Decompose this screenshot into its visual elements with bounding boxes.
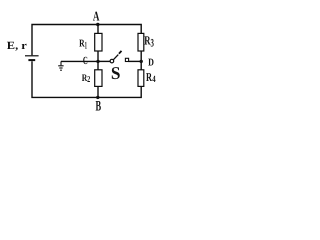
svg-text:R: R: [146, 70, 152, 84]
svg-text:1: 1: [85, 40, 87, 51]
wire R2 to B: [97, 86, 99, 97]
svg-text:4: 4: [152, 75, 156, 85]
wire D to R4: [140, 61, 142, 69]
resistor R3: [138, 33, 144, 51]
ground bar 3: [60, 69, 62, 71]
svg-text:A: A: [93, 9, 100, 24]
wire top (A row) + left upper (battery to top) + right upper (top to R3): [32, 25, 141, 56]
svg-text:E, r: E, r: [7, 40, 27, 52]
ground bar 1: [58, 65, 63, 67]
wire C to R2: [97, 61, 99, 69]
svg-text:B: B: [96, 99, 102, 114]
svg-text:2: 2: [87, 74, 90, 84]
wire middle branch A to R1: [97, 25, 99, 34]
switch S left terminal: [110, 59, 114, 63]
resistor R2: [95, 70, 102, 87]
wire C to switch: [98, 60, 110, 62]
battery E,r short plate: [28, 59, 35, 61]
switch S right terminal: [125, 58, 128, 61]
wire switch to node D: [129, 60, 142, 62]
node C junction dot: [96, 60, 99, 63]
wire R3 to D: [140, 51, 142, 61]
ground stem: [60, 61, 62, 65]
svg-text:3: 3: [151, 37, 155, 49]
node A junction dot: [96, 23, 99, 26]
svg-text:S: S: [111, 63, 121, 83]
svg-text:C: C: [83, 55, 88, 67]
wire left lower (battery to bottom) + bottom (B row) + right lower (bottom to R4): [32, 61, 141, 97]
switch S blade: [113, 55, 118, 60]
wire ground to node C: [61, 60, 98, 62]
ground bar 2: [59, 67, 62, 69]
node D junction dot: [140, 60, 143, 63]
resistor R4: [138, 70, 144, 87]
node B junction dot: [96, 96, 99, 99]
svg-text:D: D: [148, 58, 154, 69]
switch S handle tick: [119, 51, 122, 54]
resistor R1: [95, 33, 102, 51]
wire R1 to C: [97, 51, 99, 61]
battery E,r long plate: [25, 55, 39, 57]
